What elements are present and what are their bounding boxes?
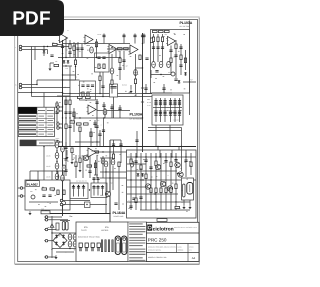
title block row lines xyxy=(146,232,199,234)
capacitor C15b xyxy=(91,85,94,87)
resistor R50 xyxy=(65,124,67,129)
wire string xyxy=(190,153,192,175)
spec table outline xyxy=(18,107,54,136)
capacitor bank CFa xyxy=(163,101,166,103)
resistor R63 xyxy=(90,132,92,137)
wire string xyxy=(82,155,84,178)
capacitor C20 xyxy=(156,47,159,49)
diode bridge D11 xyxy=(62,235,65,239)
package TO92 #2 xyxy=(85,243,88,251)
junction xyxy=(62,106,63,107)
connector J5 xyxy=(60,199,63,202)
capacitor bank CFc2 xyxy=(178,103,181,105)
PDF badge xyxy=(0,0,64,36)
connector J1A xyxy=(19,45,22,48)
wire xyxy=(140,209,190,211)
wire xyxy=(63,93,153,95)
diode D3b xyxy=(184,72,187,76)
junction xyxy=(99,93,100,94)
junction xyxy=(65,117,66,118)
capacitor bank CFc xyxy=(169,101,172,103)
junction xyxy=(109,213,110,214)
diode D2b xyxy=(67,60,70,64)
wire xyxy=(96,99,98,147)
capacitor C51 xyxy=(139,197,142,199)
wire stub xyxy=(123,34,125,44)
wire xyxy=(185,50,187,70)
junction xyxy=(154,193,155,194)
wire xyxy=(62,96,64,118)
junction xyxy=(142,43,143,44)
connector CN3 xyxy=(57,123,60,126)
wire string xyxy=(130,153,132,210)
wire element 1 xyxy=(78,185,80,197)
wire xyxy=(127,163,146,165)
resistor R11 xyxy=(103,64,105,69)
diode bridge D13 xyxy=(62,242,65,246)
capacitor C31 xyxy=(48,195,51,197)
op-amp U3A xyxy=(166,37,176,46)
junction xyxy=(189,81,190,82)
wire string xyxy=(140,153,142,210)
package bar #1 xyxy=(101,240,103,253)
wire xyxy=(170,46,172,76)
wire string xyxy=(96,155,98,178)
wire xyxy=(79,132,81,168)
junction xyxy=(181,146,182,147)
capacitor C34 xyxy=(186,198,189,200)
wire xyxy=(62,44,64,53)
fuse F2 xyxy=(56,223,59,230)
power strip text mark xyxy=(39,142,54,144)
wire long right rail xyxy=(142,33,144,152)
sub-board box K2b xyxy=(110,84,118,97)
connector J2 input R xyxy=(19,86,22,89)
wire stub into PLA007 xyxy=(37,171,39,180)
transformer T1 xyxy=(62,222,65,231)
wire vertical rail A xyxy=(31,47,33,93)
capacitor C29 xyxy=(88,171,91,173)
resistor R58 xyxy=(155,161,157,166)
wire xyxy=(22,49,48,51)
capacitor C8a xyxy=(68,52,71,54)
resistor R40 xyxy=(94,151,99,153)
transistor Q9 xyxy=(167,186,172,191)
wire down right xyxy=(181,128,183,172)
resistor R54 xyxy=(130,159,132,164)
capacitor bank CFd2 xyxy=(169,114,172,116)
capacitor C24 xyxy=(155,71,158,73)
junction xyxy=(111,47,112,48)
junction xyxy=(105,171,106,172)
wire xyxy=(102,156,104,178)
capacitor C55 xyxy=(174,160,177,162)
wire xyxy=(127,193,178,195)
svg-text:PL103A: PL103A xyxy=(180,21,193,25)
capacitor C52 xyxy=(144,160,147,162)
capacitor C12 xyxy=(118,68,121,70)
capacitor C59 xyxy=(98,134,101,136)
wire xyxy=(96,99,98,110)
wire string xyxy=(180,44,182,75)
capacitor bank CFc xyxy=(173,101,176,103)
emitter resistor RE xyxy=(150,188,152,193)
wire xyxy=(107,48,130,50)
wire xyxy=(36,80,38,85)
wire xyxy=(127,170,177,172)
wire xyxy=(170,98,172,122)
junction xyxy=(65,57,66,58)
wire string xyxy=(155,153,157,210)
resistor R45 xyxy=(63,190,65,195)
capacitor bank CFd2 xyxy=(178,114,181,116)
wire xyxy=(18,195,21,197)
wire xyxy=(71,153,73,160)
capacitor bank CFb xyxy=(159,111,162,113)
wire xyxy=(151,74,171,76)
resistor R36 xyxy=(79,158,81,163)
wire element 2 xyxy=(102,185,104,196)
wire mid bus xyxy=(58,57,120,59)
diode D3 xyxy=(178,80,181,84)
ground xyxy=(78,168,81,172)
capacitor C33 xyxy=(132,198,135,200)
wire rail C xyxy=(65,96,67,147)
wire xyxy=(81,44,83,58)
wire string xyxy=(113,140,115,163)
junction xyxy=(142,179,143,180)
junction xyxy=(102,96,103,97)
resistor R47 xyxy=(175,206,180,208)
sub-board box K1 xyxy=(95,53,110,72)
capacitor C50 xyxy=(134,161,137,163)
wire xyxy=(48,256,56,258)
capacitor C58 xyxy=(96,178,99,180)
capacitor bank CFa xyxy=(154,101,157,103)
capacitor bank CFc2 xyxy=(169,103,172,105)
junction xyxy=(62,146,63,147)
package TO220 outline 2 xyxy=(122,236,127,255)
emitter resistor RE xyxy=(170,188,172,193)
wire xyxy=(94,174,98,176)
wire xyxy=(56,251,74,253)
spec table grid xyxy=(18,107,54,136)
capacitor CR2 xyxy=(77,187,80,189)
resistor R12 xyxy=(99,76,101,81)
resistor R38 xyxy=(71,148,73,153)
resistor R34 xyxy=(84,123,89,125)
junction xyxy=(43,146,44,147)
wire xyxy=(51,216,53,258)
resistor R33 xyxy=(77,123,82,125)
junction xyxy=(145,156,146,157)
junction xyxy=(36,84,37,85)
wire xyxy=(56,110,58,128)
wire xyxy=(100,171,127,173)
wire stub into PLA007 xyxy=(63,171,65,180)
capacitor C25 xyxy=(169,50,172,52)
ground xyxy=(65,155,68,159)
resistor R48 xyxy=(157,219,167,222)
capacitor CE16 xyxy=(152,62,156,68)
connector J1B xyxy=(19,48,22,51)
wire xyxy=(150,70,152,78)
transistor Q11 xyxy=(175,162,180,167)
capacitor C6b xyxy=(141,35,144,37)
junction xyxy=(136,156,137,157)
wire stub into PLA007 xyxy=(57,171,59,180)
junction xyxy=(62,79,63,80)
wire stub xyxy=(44,229,45,231)
driver pill package xyxy=(183,184,185,197)
capacitor C26 xyxy=(95,102,98,104)
wire bus xyxy=(148,127,182,129)
capacitor CE9 xyxy=(68,241,72,247)
wire rail xyxy=(56,140,58,180)
junction xyxy=(79,117,80,118)
wire string xyxy=(89,155,91,178)
resistor R21b xyxy=(165,30,170,32)
capacitor CR4 xyxy=(92,187,95,189)
wire xyxy=(48,229,56,231)
wire stub xyxy=(44,240,45,242)
capacitor C10 xyxy=(102,57,105,59)
connector CN4 xyxy=(57,127,60,130)
capacitor bank CFd xyxy=(169,111,172,113)
svg-text:TL072: TL072 xyxy=(81,229,88,232)
board outline PL164A power amp xyxy=(127,150,197,218)
wire xyxy=(59,127,62,129)
trimpot TP1 xyxy=(171,72,175,76)
wire input L xyxy=(22,84,37,86)
wire xyxy=(103,118,105,147)
capacitor C46 xyxy=(102,130,105,132)
junction xyxy=(56,140,57,141)
svg-text:PL103A: PL103A xyxy=(130,113,143,117)
wire xyxy=(123,51,125,70)
junction xyxy=(142,117,143,118)
wire xyxy=(183,81,196,83)
wire bus xyxy=(62,200,90,202)
capacitor C48 xyxy=(119,144,122,146)
junction xyxy=(62,74,63,75)
wire stub xyxy=(134,34,136,44)
wire input R xyxy=(22,87,70,89)
capacitor bank CFd xyxy=(178,111,181,113)
capacitor C9 xyxy=(97,57,100,59)
wire string xyxy=(175,153,177,210)
capacitor C54 xyxy=(164,161,167,163)
wire xyxy=(65,37,67,58)
wire xyxy=(160,98,162,122)
resistor R17 xyxy=(69,100,71,105)
resistor R32 xyxy=(86,96,91,98)
wire xyxy=(143,93,152,95)
wire element 0 xyxy=(73,185,75,197)
wire xyxy=(50,62,54,64)
junction xyxy=(78,185,79,186)
capacitor bank CFb2 xyxy=(159,114,162,116)
op-amp U1A xyxy=(58,34,68,43)
capacitor CE2 xyxy=(55,153,59,159)
resistor R16b xyxy=(87,92,89,97)
transistor Q10 xyxy=(178,172,183,177)
wire string xyxy=(75,155,77,178)
wire element 0 xyxy=(93,185,95,196)
wire xyxy=(127,186,148,188)
capacitor C45 xyxy=(95,126,98,128)
connector J2 input L xyxy=(19,83,22,86)
junction xyxy=(74,117,75,118)
capacitor C30 xyxy=(42,195,45,197)
junction xyxy=(130,179,131,180)
wire stub into PLA007 xyxy=(43,171,45,180)
capacitor bank CFd xyxy=(173,111,176,113)
package bar #3 xyxy=(108,240,110,253)
emitter resistor RE xyxy=(160,188,162,193)
wire xyxy=(127,179,196,181)
connector AC4 xyxy=(45,239,48,242)
capacitor C7 xyxy=(61,46,64,48)
wire xyxy=(169,125,171,147)
connector AC5 xyxy=(45,256,48,259)
wire xyxy=(175,40,177,78)
ground xyxy=(48,67,51,71)
capacitor CE15 xyxy=(130,161,134,167)
resistor R7 xyxy=(69,44,71,49)
wire main left rail xyxy=(62,40,64,216)
junction xyxy=(142,67,143,68)
package inner mark xyxy=(189,185,191,193)
wire xyxy=(155,125,157,147)
svg-text:PRC 250: PRC 250 xyxy=(148,237,167,242)
diode D2a xyxy=(63,60,66,64)
op-amp U5A xyxy=(87,148,97,157)
heatsink package box xyxy=(182,178,194,200)
wire xyxy=(32,96,153,98)
capacitor bank CFb xyxy=(163,111,166,113)
wire element 1 xyxy=(97,185,99,196)
junction xyxy=(135,201,136,202)
wire bus xyxy=(37,79,76,81)
resistor R19 xyxy=(139,55,141,60)
fuse F1 xyxy=(41,211,50,214)
capacitor C26b xyxy=(179,47,182,49)
resistor R59 xyxy=(170,162,172,167)
junction xyxy=(155,201,156,202)
capacitor C17 xyxy=(134,70,138,76)
board outline PLA007 xyxy=(25,180,70,210)
capacitor bank CFc2 xyxy=(173,103,176,105)
capacitor CE11 xyxy=(73,241,77,247)
capacitor C5 xyxy=(122,35,125,37)
junction xyxy=(159,156,160,157)
wire xyxy=(111,54,113,94)
page bottom shadow xyxy=(15,263,200,265)
resistor R43 xyxy=(50,188,55,190)
junction xyxy=(177,173,178,174)
capacitor C10b xyxy=(101,86,104,88)
wire xyxy=(48,240,53,242)
board outline PL103A tone xyxy=(151,30,190,94)
wire xyxy=(145,84,147,94)
board outline supply filter xyxy=(152,95,183,125)
junction xyxy=(43,46,44,47)
connector CN1 xyxy=(57,106,60,109)
capacitor C14 xyxy=(81,85,84,87)
capacitor CR6 xyxy=(101,187,104,189)
resistor R62 xyxy=(94,163,96,168)
page background xyxy=(15,17,200,264)
capacitor CE21 xyxy=(61,146,65,152)
capacitor CE12 xyxy=(90,47,94,53)
wire xyxy=(75,141,100,143)
wire xyxy=(59,110,62,112)
wire stub xyxy=(185,150,187,157)
resistor R16 xyxy=(82,92,84,97)
capacitor CE4 xyxy=(55,174,59,180)
wire string xyxy=(145,153,147,210)
capacitor CR5 xyxy=(96,187,99,189)
wire element 2 xyxy=(83,185,85,197)
junction xyxy=(73,185,74,186)
pinout reference box xyxy=(76,222,128,262)
wire xyxy=(112,166,114,190)
wire xyxy=(69,40,71,58)
board outline regulator unit A xyxy=(70,183,88,199)
wire string xyxy=(120,140,122,163)
spec table value marks xyxy=(39,116,54,134)
resistor R35 xyxy=(79,127,81,132)
ground xyxy=(129,89,132,93)
capacitor C16 xyxy=(68,112,71,114)
capacitor CB xyxy=(64,147,67,149)
junction xyxy=(62,117,63,118)
wire xyxy=(189,200,191,205)
junction xyxy=(135,156,136,157)
capacitor C14b xyxy=(110,87,113,89)
wire xyxy=(52,248,76,250)
Ciclotron logo mark xyxy=(147,225,152,231)
wire xyxy=(73,42,75,58)
wire xyxy=(59,106,62,108)
wire stub into PLA007 xyxy=(51,171,53,180)
junction xyxy=(47,46,48,47)
junction xyxy=(102,151,103,152)
junction xyxy=(69,248,70,249)
wire input feed xyxy=(22,46,70,48)
connector CN2 xyxy=(57,110,60,113)
wire top bus xyxy=(63,43,130,45)
wire string xyxy=(162,34,164,62)
wire string xyxy=(135,153,137,210)
capacitor CE22 xyxy=(61,175,65,181)
junction xyxy=(86,204,87,205)
capacitor C40 xyxy=(55,112,58,114)
capacitor C6 xyxy=(142,35,145,37)
capacitor CE7 xyxy=(111,159,115,165)
transistor Q5 xyxy=(83,155,88,160)
wire xyxy=(164,98,166,122)
package TO92 #4 xyxy=(97,243,100,251)
notes text lines xyxy=(129,224,145,261)
capacitor C11 xyxy=(110,68,114,74)
connector AC3 xyxy=(45,228,48,231)
junction xyxy=(56,161,57,162)
capacitor CE3 xyxy=(55,163,59,169)
junction xyxy=(83,185,84,186)
capacitor C21 xyxy=(161,47,164,49)
